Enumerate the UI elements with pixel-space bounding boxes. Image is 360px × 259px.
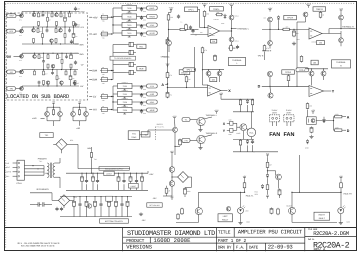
wire aux1 nets (53, 105, 55, 108)
svg-text:0V: 0V (7, 55, 12, 59)
wire relay to fan connectors (253, 151, 255, 153)
output cap -HVL (132, 101, 147, 103)
svg-text:2 WAY: 2 WAY (272, 109, 278, 112)
svg-text:NEUT: NEUT (5, 166, 10, 169)
mains transformer label box (40, 133, 53, 138)
svg-text:-A63: -A63 (76, 127, 80, 130)
svg-text:-HV: -HV (80, 85, 84, 88)
aux circuit 2 power label (79, 103, 81, 105)
wire channel R rail (262, 28, 309, 30)
fan connector J2 pins (286, 122, 288, 126)
svg-text:TEMP: TEMP (131, 136, 137, 139)
svg-text:+HV: +HV (92, 16, 97, 19)
svg-text:REGULATED SUPPLY: REGULATED SUPPLY (105, 167, 124, 170)
output label +HVR (147, 15, 158, 19)
sub-board row1 r at x=47.5 (47, 12, 49, 18)
output label -HVR (147, 108, 158, 112)
wire Q25 links (340, 12, 342, 15)
sub-board dashed outline (6, 13, 88, 100)
wire feed row +HVL (113, 7, 122, 9)
pass transistor QP1 (20, 14, 24, 18)
svg-text:-LV: -LV (92, 96, 96, 99)
power +17V Q25 (340, 10, 342, 12)
regulator 7824 +HVL (122, 5, 137, 10)
wire comparator R net (311, 69, 313, 71)
sub-board row1 q at x=56.5 (56, 12, 58, 14)
electrolytic C29 (167, 38, 169, 39)
svg-text:+A63: +A63 (32, 117, 36, 120)
svg-text:10K: 10K (40, 57, 43, 59)
op-amp U3 thermal comparator L (208, 85, 221, 96)
svg-text:LEFT: LEFT (223, 215, 229, 218)
bus +HV/+LV vertical (112, 8, 114, 34)
ground Q36 (200, 128, 202, 130)
op-amp U1 comparator L (208, 26, 220, 37)
resistor R63 (288, 75, 290, 76)
transformer T1 secondary winding (53, 163, 55, 167)
sub-board row3 c at x=66.5 (66, 53, 68, 55)
electrolytic C8V1 (127, 44, 130, 46)
diode D43 (267, 173, 269, 174)
sub-board row2 q at x=60.5 (60, 27, 62, 29)
svg-text:FAULT-L: FAULT-L (246, 195, 255, 198)
power +LV fan bridge (171, 153, 173, 155)
sub-board row2 r at x=56 (55, 27, 57, 29)
sub-board row2 r at x=56 (55, 42, 57, 44)
svg-text:-15V: -15V (141, 219, 146, 222)
wire to node D (343, 129, 346, 131)
regulator -LVR ground pin (124, 97, 126, 98)
regulator 7915 -LVL (118, 83, 133, 88)
sub-board row4 c at x=52.5 (52, 70, 54, 72)
input terminal +LV row 2 (89, 33, 92, 35)
box LEFT FAULT (218, 214, 232, 222)
wire 8VA to bus (100, 79, 101, 81)
terminal TP3-R box (282, 70, 295, 74)
transistor Q42 (169, 181, 175, 187)
wire 8V branch 3 (113, 64, 127, 66)
capacitor C48 (178, 14, 180, 16)
input terminal -LV row 5 (89, 96, 92, 98)
LED D46 right fault (338, 208, 344, 214)
wire BR2 nets (51, 193, 53, 201)
wire delay link (184, 74, 186, 75)
wire 8V branch 4 (113, 72, 127, 74)
svg-text:TO OTHER BOARDS: TO OTHER BOARDS (114, 57, 132, 60)
wire relay bottom net2 (240, 146, 242, 152)
sub-board -HV rail (16, 88, 22, 90)
wire mid vertical link (167, 37, 169, 98)
wire relay top net2 (233, 111, 254, 113)
output cap -HVR (132, 109, 147, 111)
svg-text:+17V: +17V (229, 3, 234, 6)
wire adj link (147, 171, 149, 173)
svg-text:TP2-R: TP2-R (299, 69, 306, 72)
wire opto nets (307, 110, 309, 117)
svg-text:REV A: REV A (314, 248, 326, 253)
transistor Q21 thermal L low (229, 37, 234, 42)
svg-text:SET 15V ADJ: SET 15V ADJ (149, 204, 159, 207)
electrolytic C8V4 (127, 72, 130, 74)
wire -HV to bus (100, 109, 101, 111)
svg-text:A: A (161, 83, 164, 87)
resistor R40 (186, 76, 188, 77)
svg-text:FAULT: FAULT (319, 217, 326, 220)
svg-text:CON1: CON1 (16, 182, 21, 185)
sub-board +HV rail (16, 15, 22, 17)
ground mid (140, 212, 142, 214)
regulator 7924 -HVL (118, 99, 133, 104)
electrolytic CF4 (97, 179, 99, 181)
wire driver base join (236, 123, 238, 130)
wire 8V branch 2 (113, 52, 127, 54)
electrolytic CG4 (94, 200, 96, 201)
electrolytic C42 (184, 187, 186, 188)
sub-board row4 r at x=43.5 (43, 84, 45, 86)
svg-text:+HV: +HV (9, 15, 14, 18)
svg-text:+LV: +LV (80, 26, 84, 29)
svg-text:RIGHT: RIGHT (319, 214, 326, 217)
svg-text:F.A.: F.A. (236, 245, 245, 250)
wire relay top rail (220, 97, 222, 99)
svg-text:D: D (258, 85, 261, 89)
sub-board row2 q at x=51.5 (51, 42, 53, 44)
wire Q21 links (231, 42, 233, 46)
zener Z1 (262, 184, 264, 185)
electrolytic CF6 (123, 179, 125, 181)
output cap +HVR (137, 16, 147, 18)
svg-text:T-R: T-R (184, 139, 188, 142)
sub-board row1 e at x=65 (64, 12, 66, 18)
svg-text:THERMAL: THERMAL (336, 61, 346, 64)
capacitor C91 (42, 202, 44, 206)
resistor R55 (320, 11, 322, 12)
wire fault L feed (174, 152, 176, 155)
svg-text:-HV: -HV (92, 109, 97, 112)
svg-text:BOTTOM PCB ASSY: BOTTOM PCB ASSY (105, 220, 124, 223)
fuse F6 (101, 108, 107, 112)
resistor R42 (166, 187, 168, 188)
transistor Q40 fan drive (173, 127, 178, 132)
ground Q37 (200, 146, 202, 148)
power +15V opto (312, 112, 314, 114)
sub-board row2 r at x=33.5 (33, 42, 35, 44)
sub-board row1 r at x=38.5 (38, 25, 40, 27)
capacitor C70 (252, 140, 254, 142)
output cap +LVR (137, 32, 147, 34)
svg-text:THERMAL-L: THERMAL-L (237, 28, 250, 31)
svg-text:THERMAL-R: THERMAL-R (342, 25, 354, 28)
sub-board row1 r at x=56.5 (56, 25, 58, 27)
wire channel R opamp input (305, 17, 307, 22)
transistor Q25 thermal R high (339, 15, 344, 20)
opto coupler U5 (307, 117, 317, 125)
label strip BOTTOM PCB (100, 219, 129, 223)
input resistor R52 (185, 24, 187, 25)
transistor Q24 (303, 12, 308, 17)
sub-board row4 c at x=39 (38, 84, 40, 86)
svg-text:1M: 1M (212, 40, 215, 43)
output cap -LVL (132, 85, 147, 87)
svg-text:SW-L: SW-L (5, 175, 9, 178)
svg-text:47u: 47u (72, 78, 75, 80)
svg-text:TP2-R: TP2-R (258, 54, 264, 57)
regulator 7815 +LVL (122, 22, 137, 27)
terminal TP1-R (284, 15, 297, 19)
wire inverting input L (191, 34, 209, 36)
border ruler ticks left (5, 4, 7, 248)
resistor R76 (244, 182, 246, 183)
transistor Q34 (309, 71, 314, 76)
fuse F3 (101, 69, 107, 73)
transistor Q38 relay driver (240, 124, 247, 131)
power +15V relay top (220, 95, 222, 97)
svg-text:THERMAL: THERMAL (232, 59, 242, 62)
svg-text:-LV: -LV (9, 71, 13, 74)
LED D45 left fault (238, 208, 244, 214)
fuse F10 (282, 28, 283, 30)
svg-text:TITLE: TITLE (218, 230, 231, 236)
svg-text:10K: 10K (264, 18, 267, 20)
terminal TP2-L (183, 68, 195, 72)
transistor Q51a (71, 112, 76, 117)
thermal L sense box (229, 57, 246, 65)
wire feed row -LVL (113, 85, 118, 87)
electrolytic CF7 (130, 176, 132, 177)
electrolytic CG5 (100, 202, 102, 204)
transistor Q35 (321, 71, 326, 76)
power +LV chain2 (267, 155, 269, 157)
sub-board row4 r at x=66 (65, 70, 67, 72)
svg-text:8VA: 8VA (92, 70, 97, 73)
label 8VR (137, 67, 146, 71)
transformer T1 primary winding (47, 163, 49, 167)
input terminal -HV row 6 (89, 109, 92, 111)
small box VREF (106, 196, 113, 201)
svg-text:VERSIONS: VERSIONS (126, 243, 152, 250)
resistor R81 (334, 116, 335, 118)
resistor R90b (79, 109, 81, 110)
resistor R78 (277, 208, 279, 209)
output label -HVL (147, 100, 158, 104)
svg-text:LM317: LM317 (106, 172, 112, 175)
svg-text:-LV: -LV (80, 64, 84, 67)
resistor R43 (267, 161, 269, 162)
diode D71 (247, 139, 249, 140)
electrolytic CF1 (81, 176, 83, 177)
transistor Q32 (267, 71, 272, 76)
sub-board row1 q at x=34 (33, 12, 35, 14)
wire U3 output to X (221, 90, 228, 92)
output label -LVL (147, 84, 158, 88)
electrolytic CF2 (86, 179, 88, 181)
svg-text:THERMAL-L: THERMAL-L (206, 114, 218, 117)
resistor R62 (264, 44, 266, 45)
wire secondary taps (55, 162, 60, 164)
wire fan drive nets (174, 120, 177, 128)
sub-board row3 e at x=71 (70, 53, 72, 55)
svg-text:-HVL: -HVL (150, 101, 156, 104)
pass transistor QP4 (20, 70, 24, 74)
sub-board row2 r at x=65 (64, 27, 66, 34)
wire feed row +HVR (113, 16, 122, 18)
trip threshold box L (210, 7, 224, 11)
transistor Q19 input chain (167, 41, 172, 46)
drawing / title separator line (5, 227, 357, 229)
svg-text:1600D 2000E: 1600D 2000E (154, 237, 192, 244)
transistor Q50a (45, 112, 50, 117)
delay box DLY1 (179, 70, 190, 75)
svg-text:R18 & R26 CHANGED FROM 10K/15: R18 & R26 CHANGED FROM 10K/15 TO 16K/15 (21, 244, 55, 247)
power +5V fault R (340, 177, 342, 179)
power -LV chain2 (267, 196, 269, 198)
power +17V channel L (231, 6, 233, 8)
svg-text:FAN: FAN (269, 132, 280, 138)
electrolytic C52 (293, 30, 295, 31)
strip label REGULATED SUPPLIES (99, 167, 129, 171)
output label +LVL (147, 23, 158, 27)
svg-text:8VR: 8VR (139, 68, 144, 71)
rail upper A (77, 144, 79, 168)
power +5V fault L (244, 177, 246, 179)
power +15V channel L (204, 5, 206, 7)
output cap +HVL (137, 7, 147, 9)
svg-text:BD132: BD132 (235, 41, 240, 43)
svg-text:-LVR: -LVR (150, 93, 155, 96)
electrolytic C80 (311, 126, 313, 127)
electrolytic CF3 (92, 176, 94, 177)
transistor Q44 (289, 207, 296, 214)
svg-text:22-09-93: 22-09-93 (268, 243, 293, 250)
electrolytic CG1 (73, 200, 75, 201)
diode D70 (247, 99, 249, 100)
sub-board row2 c at x=47 (46, 27, 48, 29)
sub-board mid rail (22, 43, 78, 45)
electrolytic C43 (279, 189, 281, 190)
wire channel R comparator nets (264, 52, 266, 60)
sub-board row3 c at x=43.5 (43, 53, 45, 59)
wire to op-amp input (187, 29, 199, 31)
bridge rectifier BR3 diamond (178, 172, 189, 183)
wire input chain L rail (170, 10, 172, 13)
svg-text:100K: 100K (228, 120, 231, 122)
resistor R96 (177, 213, 179, 214)
regulator -HVL ground pin (124, 105, 126, 106)
svg-text:TX 1: TX 1 (39, 160, 43, 163)
power +17V channel R (308, 6, 310, 8)
svg-text:+HVL: +HVL (149, 7, 155, 10)
wire 8V branch 1 (113, 44, 127, 46)
sub-board row1 r at x=52 (51, 12, 53, 14)
svg-text:4K7: 4K7 (39, 31, 42, 33)
electrolytic CG9 (127, 200, 129, 201)
ground LED L (240, 214, 242, 221)
pass transistor QP3 (20, 54, 24, 58)
svg-text:2 WAY: 2 WAY (286, 109, 292, 112)
electrolytic CF9 (141, 176, 143, 177)
electrolytic C61 (214, 54, 216, 55)
svg-text:TRIP-L: TRIP-L (213, 8, 220, 11)
wire relay coil links (250, 112, 252, 128)
svg-text:+LV: +LV (92, 33, 97, 36)
svg-text:TP3-R: TP3-R (285, 71, 292, 74)
electrolytic C78 (271, 207, 273, 208)
sub-board row2 r at x=42.5 (42, 27, 44, 34)
sub-board row4 r at x=34.5 (34, 70, 36, 72)
svg-text:10K: 10K (200, 32, 203, 34)
power +15V channel R (269, 9, 271, 11)
sub-board -LV rail (16, 71, 22, 73)
sub-board row3 r at x=57.5 (57, 53, 59, 55)
wire +HV to bus (100, 16, 101, 18)
regulator 7815 +LVR (122, 30, 137, 35)
fuse F2 (101, 32, 107, 36)
fuse F1 (101, 15, 107, 19)
resistor R44 (267, 184, 269, 185)
output label +LVR (147, 31, 158, 35)
svg-text:DRN BY: DRN BY (218, 245, 232, 250)
wire U4 output to Y (324, 90, 332, 92)
wire Q19 (168, 30, 170, 41)
svg-text:1M: 1M (319, 42, 322, 45)
sub-board row3 r at x=71 (70, 68, 72, 70)
electrolytic CF8 (136, 179, 138, 181)
wire op-amp R output (322, 33, 341, 35)
electrolytic C8V3 (127, 64, 130, 66)
title block outline (123, 228, 357, 252)
exit cap C12 (75, 22, 77, 24)
wire Q26 links (340, 31, 342, 38)
regulator +HVL ground pin (128, 11, 130, 12)
transistor Q20 thermal L high (229, 15, 234, 20)
wire node A to bus (165, 84, 167, 86)
wire node D rail (262, 85, 309, 87)
box RIGHT FAULT (314, 212, 330, 220)
sub-board row4 r at x=57 (56, 70, 58, 76)
svg-text:PART 1 OF 2: PART 1 OF 2 (218, 238, 247, 244)
sub-board row2 r at x=38 (37, 27, 39, 29)
sub-board row4 r at x=75 (74, 84, 76, 86)
svg-text:1K: 1K (49, 20, 51, 22)
rail upper B (66, 172, 148, 174)
resistor R90a (53, 109, 55, 110)
wire feed row +LVL (113, 24, 122, 26)
transistor Q37 thermal sense R (197, 135, 205, 143)
resistor R82 (334, 129, 335, 131)
svg-text:FAULT: FAULT (222, 219, 229, 222)
pass transistor QP2 (20, 29, 24, 33)
svg-text:D: D (347, 129, 350, 133)
electrolytic CG8 (121, 202, 123, 204)
op-amp U2 comparator R (309, 28, 322, 39)
resistor R60 (202, 47, 204, 48)
sub-board row3 r at x=48 (47, 53, 49, 55)
wire Q37 (190, 139, 197, 141)
wire fault L nets (244, 180, 246, 182)
output label -LVR (147, 92, 158, 96)
sub-board row3 r at x=48 (47, 68, 49, 70)
transistor Q43 (276, 174, 282, 180)
output cap -LVR (132, 93, 147, 95)
fuse F20 (91, 151, 93, 152)
sub-board +LV rail (16, 30, 22, 32)
exit cap C13 (75, 60, 77, 62)
sub-board row2 e at x=73.5 (73, 27, 75, 34)
wire +LV to bus (100, 33, 101, 35)
svg-text:2K2: 2K2 (62, 15, 65, 17)
svg-text:BR1: BR1 (70, 139, 73, 142)
output cap +LVL (137, 24, 147, 26)
